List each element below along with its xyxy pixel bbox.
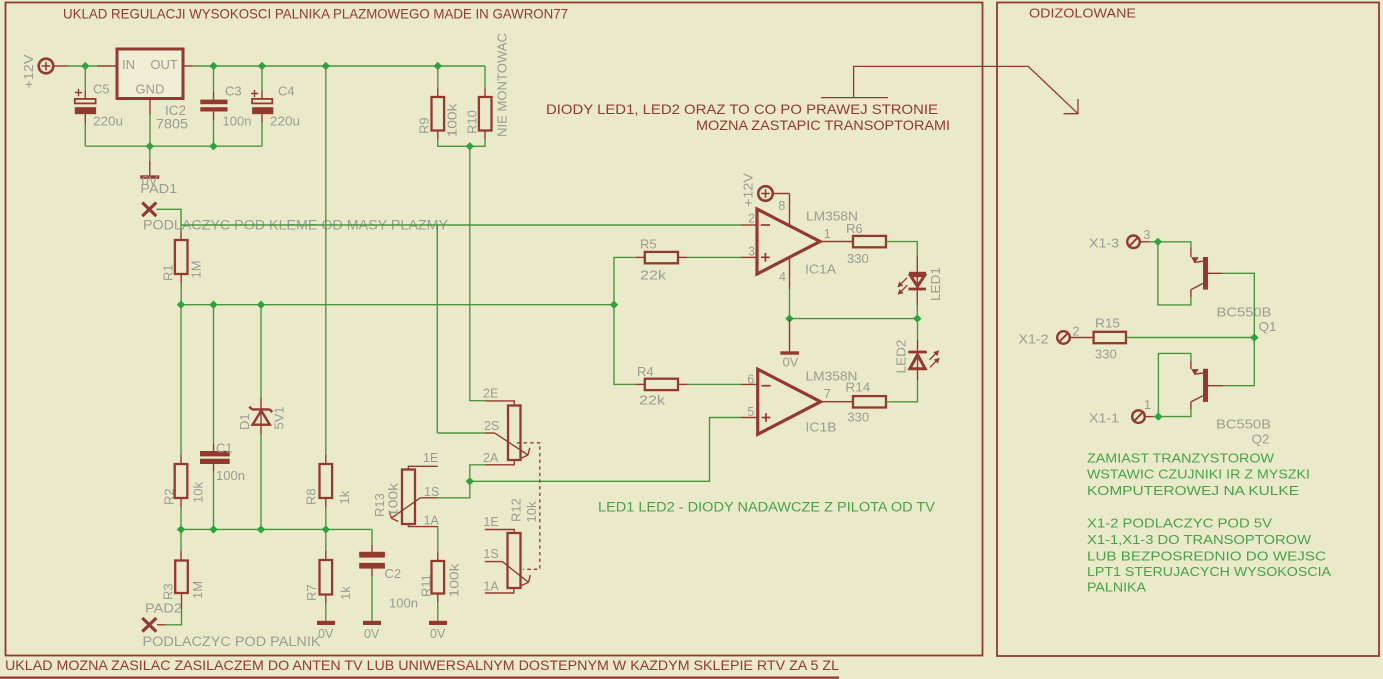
junction C4 top [258, 62, 266, 70]
ground 0V under C2 [363, 621, 381, 625]
junction GND pin [146, 142, 154, 150]
wire C2 top lead [371, 529, 373, 545]
svg-text:3: 3 [1144, 228, 1151, 242]
junction wiper net [466, 477, 474, 485]
wire 2S wiper to pin2 [436, 225, 438, 433]
LED2 emission arrows [930, 354, 937, 368]
svg-text:1: 1 [1144, 398, 1151, 412]
svg-text:330: 330 [1095, 346, 1117, 361]
svg-text:6: 6 [747, 372, 754, 386]
svg-text:22k: 22k [640, 268, 667, 283]
svg-text:1E: 1E [483, 515, 498, 529]
svg-text:Q1: Q1 [1259, 319, 1277, 334]
svg-text:X1-2 PODLACZYC POD 5V: X1-2 PODLACZYC POD 5V [1087, 515, 1272, 530]
pin 1S wiper R13 [420, 497, 438, 499]
svg-text:0V: 0V [430, 627, 446, 641]
pin LED1 bottom [916, 290, 918, 305]
regulator IC2 7805 [117, 49, 183, 99]
pin 5 non-inverting [741, 417, 758, 419]
svg-text:C2: C2 [385, 566, 402, 581]
svg-text:MOZNA ZASTAPIC TRANSOPTORAMI: MOZNA ZASTAPIC TRANSOPTORAMI [696, 117, 950, 133]
svg-text:R7: R7 [304, 584, 319, 601]
pin IN [97, 65, 117, 67]
body R15 [1094, 332, 1126, 343]
svg-text:R6: R6 [846, 221, 863, 236]
wire bus bottom [181, 528, 372, 530]
svg-text:R9: R9 [417, 117, 432, 134]
svg-text:LED2: LED2 [893, 340, 908, 374]
svg-text:1k: 1k [338, 586, 353, 600]
wire R9/R10 bottom join [438, 139, 485, 146]
pin LED2 top [917, 340, 919, 351]
svg-text:PALNIKA: PALNIKA [1087, 579, 1146, 594]
wire Q1 collector loop [1158, 242, 1191, 305]
Q1 emitter [1158, 242, 1191, 248]
svg-text:LED1 LED2 - DIODY NADAWCZE Z P: LED1 LED2 - DIODY NADAWCZE Z PILOTA OD T… [598, 500, 935, 515]
svg-text:1M: 1M [190, 581, 205, 599]
svg-text:PAD1: PAD1 [140, 181, 177, 196]
pin C3 bottom [213, 112, 215, 121]
pin R11 bottom [437, 594, 439, 603]
wire R13-1A to R11 [437, 527, 439, 552]
pad X1-3 [1127, 236, 1140, 249]
body R2 [175, 464, 188, 498]
wire bus to R4 [614, 305, 636, 385]
svg-text:100k: 100k [447, 563, 462, 598]
svg-text:0V: 0V [783, 354, 799, 369]
pin R2 bottom [180, 498, 182, 507]
svg-text:C3: C3 [225, 83, 242, 98]
body R7 [320, 560, 333, 595]
svg-text:1k: 1k [337, 490, 352, 504]
wire R2 top lead [180, 305, 182, 455]
svg-text:100k: 100k [386, 482, 401, 517]
svg-text:2E: 2E [483, 387, 498, 401]
junction R2/R3 [177, 525, 185, 533]
pin C2 bottom [371, 569, 373, 576]
pad PAD1 (0V) [149, 146, 151, 161]
supply +12V input [39, 59, 54, 74]
pin 1A R13 [408, 524, 437, 527]
svg-text:R11: R11 [419, 574, 434, 597]
wire 2S to pin2 riser [437, 432, 485, 434]
junction C1 top [209, 301, 217, 309]
svg-text:D1: D1 [237, 413, 252, 430]
wire ground bus under regulator [85, 145, 262, 147]
svg-text:330: 330 [847, 410, 869, 425]
pin LED1 top [916, 256, 918, 272]
pin R1 top [180, 231, 182, 240]
svg-text:X1-1: X1-1 [1089, 411, 1119, 426]
junction C3 top [209, 62, 217, 70]
svg-text:R15: R15 [1095, 316, 1120, 331]
Q1 base [1208, 272, 1222, 274]
svg-text:IC1A: IC1A [805, 262, 836, 277]
pin R8 bottom [325, 498, 327, 507]
supply +12V op-amp [758, 186, 773, 201]
pin C1 bottom [213, 464, 215, 471]
sheet frame left [6, 3, 983, 656]
wire C1 top lead [213, 305, 215, 444]
pin D1 bottom [260, 427, 262, 434]
cross PAD2 connection [142, 618, 156, 632]
body R3 [175, 561, 188, 594]
op-amp IC1A LM358N [757, 209, 820, 274]
svg-text:5: 5 [747, 405, 754, 419]
wire rail to R8 [325, 66, 327, 455]
body R12 gang1 [508, 533, 521, 588]
Q2 collector [1191, 396, 1203, 402]
pin 6 inverting [741, 383, 758, 385]
Q1 collector [1191, 283, 1203, 289]
pin 2 inverting [741, 224, 757, 226]
LED LED1 [909, 272, 926, 275]
junction C3 bottom [209, 142, 217, 150]
svg-text:1A: 1A [424, 514, 440, 528]
body R14 [853, 396, 886, 407]
svg-text:DIODY LED1, LED2 ORAZ TO CO PO: DIODY LED1, LED2 ORAZ TO CO PO PRAWEJ ST… [546, 101, 938, 117]
body R8 [320, 464, 333, 498]
pin 7 output [821, 401, 853, 403]
pin R3 bottom [181, 593, 183, 609]
junction R9R10 to divider [466, 142, 474, 150]
svg-text:R2: R2 [161, 488, 176, 505]
svg-text:R5: R5 [640, 237, 657, 252]
body R6 [853, 236, 886, 247]
wire D1 top lead [260, 305, 262, 398]
svg-text:PODLACZYC POD PALNIK: PODLACZYC POD PALNIK [143, 634, 321, 649]
wire pin5 net to wipers [470, 418, 741, 482]
junction D1 bottom [257, 525, 265, 533]
sheet frame right [997, 3, 1379, 657]
junction R1/R2 [177, 301, 185, 309]
pin C4 bottom [261, 114, 263, 123]
svg-text:22k: 22k [639, 393, 666, 408]
junction R8 rail tap [322, 62, 330, 70]
junction LED1/LED2 [913, 314, 921, 322]
wire R14 to LED2 [886, 380, 918, 402]
minus sign IC1B [762, 385, 771, 387]
svg-text:2A: 2A [483, 451, 499, 465]
svg-text:1M: 1M [189, 260, 204, 278]
svg-text:7: 7 [824, 387, 831, 401]
pin R1 bottom [180, 274, 182, 283]
pin R9 bottom [437, 131, 439, 140]
junction R5/R4 column [610, 301, 618, 309]
junction X1-1 [1154, 412, 1162, 420]
wire R5 to pin3 [687, 256, 741, 258]
bottom underline [0, 676, 839, 678]
svg-text:R1: R1 [160, 264, 175, 281]
svg-text:7805: 7805 [156, 116, 188, 131]
svg-text:Q2: Q2 [1252, 432, 1270, 447]
ground 0V op-amp [789, 319, 791, 352]
pin 1 output [820, 241, 853, 243]
junction base net [1250, 333, 1258, 341]
cross PAD1 connection [142, 203, 156, 217]
wire R10 top lead [484, 66, 486, 88]
pin X1-2 to R15 [1070, 337, 1094, 339]
svg-text:LUB BEZPOSREDNIO DO WEJSC: LUB BEZPOSREDNIO DO WEJSC [1087, 548, 1326, 563]
svg-text:NIE MONTOWAC: NIE MONTOWAC [495, 33, 510, 137]
svg-text:1E: 1E [423, 451, 438, 465]
Q2 base [1208, 385, 1223, 387]
svg-text:0V: 0V [364, 627, 380, 641]
pin 2E [486, 401, 515, 406]
pin supply [53, 65, 68, 67]
svg-text:GND: GND [136, 82, 165, 97]
svg-text:3: 3 [748, 245, 755, 259]
wire 0V rail between op-amps [790, 318, 918, 320]
wire R9/R10 to 2E of R12 [470, 146, 486, 400]
svg-text:100n: 100n [216, 468, 245, 483]
svg-text:X1-2: X1-2 [1019, 331, 1049, 346]
svg-text:4: 4 [779, 270, 786, 284]
svg-text:220u: 220u [93, 113, 123, 128]
body R13 [402, 470, 415, 525]
svg-text:100n: 100n [223, 113, 252, 128]
svg-text:R12: R12 [509, 498, 524, 522]
wire R3 top lead [180, 529, 182, 551]
ground 0V under R11 [429, 621, 447, 625]
wire +12V to IN [68, 65, 97, 67]
svg-text:WSTAWIC CZUJNIKI IR Z MYSZKI: WSTAWIC CZUJNIKI IR Z MYSZKI [1087, 467, 1310, 482]
pin X1-1 [1145, 416, 1153, 418]
LED1 emission arrows [901, 278, 907, 291]
junction R9 top [434, 62, 442, 70]
capacitor C3 100n [200, 100, 227, 105]
junction R8/R7 [322, 525, 330, 533]
junction X1-3 [1154, 238, 1162, 246]
pin GND of IC2 [149, 99, 151, 115]
svg-text:+12V: +12V [21, 54, 36, 88]
body R11 [432, 561, 445, 594]
wire OUT rail 5V [183, 65, 193, 67]
svg-text:8: 8 [778, 199, 785, 213]
svg-text:R10: R10 [465, 110, 480, 134]
pin R10 bottom [484, 131, 486, 140]
wire inverting input net (pin2) [181, 224, 741, 226]
op-amp IC1B LM358N [758, 369, 821, 434]
pin 8 V+ [772, 193, 789, 195]
junction pin4 0V [785, 314, 793, 322]
wire bus mid (R1-R2-C1-D1 to R5/R4) [181, 304, 614, 306]
capacitor C4 220u [251, 90, 258, 97]
wire R7 top lead [325, 529, 327, 551]
svg-text:ZAMIAST TRANZYSTOROW: ZAMIAST TRANZYSTOROW [1087, 450, 1275, 465]
svg-text:220u: 220u [270, 113, 300, 128]
svg-text:ODIZOLOWANE: ODIZOLOWANE [1029, 5, 1136, 20]
svg-text:C5: C5 [93, 82, 110, 97]
svg-text:+12V: +12V [741, 173, 756, 207]
wire base net Q1/Q2 [1222, 273, 1254, 385]
svg-text:2S: 2S [484, 419, 499, 433]
wire R3 to PAD2 [165, 609, 182, 625]
resistor R1 1M [175, 240, 188, 274]
svg-text:IC1B: IC1B [806, 419, 837, 434]
wire R9 top lead [437, 66, 439, 88]
pin 2A [486, 460, 515, 465]
pad X1-1 [1132, 410, 1145, 423]
ground 0V under R7 [317, 621, 335, 625]
wire PAD1 to R1 [157, 209, 182, 231]
capacitor C5 220u [75, 89, 82, 96]
body R5 [645, 252, 678, 263]
svg-text:330: 330 [847, 251, 869, 266]
svg-text:LED1: LED1 [928, 267, 943, 301]
junction D1 top [257, 301, 265, 309]
svg-text:UKLAD MOZNA ZASILAC ZASILACZEM: UKLAD MOZNA ZASILAC ZASILACZEM DO ANTEN … [5, 658, 839, 673]
wire R4 to pin6 [687, 383, 741, 385]
svg-text:X1-3: X1-3 [1089, 236, 1119, 251]
wire C4 top lead [261, 66, 263, 91]
pin LED2 bottom [917, 369, 919, 380]
svg-text:R3: R3 [161, 583, 176, 600]
wire C5 top lead [84, 66, 86, 91]
pin C5 bottom [84, 114, 86, 123]
pin 1E R13 [408, 466, 437, 469]
svg-text:X1-1,X1-3 DO TRANSOPTOROW: X1-1,X1-3 DO TRANSOPTOROW [1087, 532, 1312, 547]
svg-text:KOMPUTEROWEJ NA KULKE: KOMPUTEROWEJ NA KULKE [1087, 483, 1299, 498]
svg-text:PAD2: PAD2 [145, 601, 182, 616]
pin 4 gnd [789, 258, 791, 289]
pin 1S gang1 [485, 561, 503, 563]
junction C5 top [81, 62, 89, 70]
pad X1-2 [1057, 331, 1070, 344]
junction C1 bottom [209, 525, 217, 533]
wire R15 to bases [1126, 337, 1254, 339]
wire R6 to LED1 [886, 242, 917, 256]
pin X1-3 [1140, 241, 1149, 243]
wire Q2 emitter loop [1158, 353, 1191, 416]
svg-text:OUT: OUT [150, 57, 178, 72]
svg-text:1: 1 [824, 227, 831, 241]
pin R5 right [678, 256, 687, 258]
pin 2S wiper [486, 432, 496, 434]
svg-text:1A: 1A [483, 579, 499, 593]
wire C3 top lead [213, 66, 215, 92]
svg-text:2: 2 [1073, 325, 1080, 339]
svg-text:R4: R4 [637, 364, 654, 379]
svg-text:C1: C1 [216, 441, 233, 456]
wire 2A/1S net [438, 465, 486, 498]
LED LED2 [908, 351, 927, 354]
body R9 100k [432, 97, 445, 131]
svg-text:100n: 100n [389, 596, 418, 611]
svg-text:C4: C4 [278, 83, 295, 98]
svg-text:10k: 10k [524, 501, 539, 522]
transistor Q2 BC550B [1203, 369, 1208, 402]
body R4 [645, 379, 678, 390]
svg-text:IN: IN [122, 57, 135, 72]
svg-text:100k: 100k [445, 103, 460, 138]
pin R7 bottom [325, 595, 327, 604]
minus sign IC1A [761, 224, 770, 226]
svg-text:LPT1 STERUJACYCH WYSOKOSCIA: LPT1 STERUJACYCH WYSOKOSCIA [1087, 564, 1331, 579]
svg-text:1S: 1S [483, 547, 498, 561]
svg-text:0V: 0V [318, 627, 334, 641]
body R10 [479, 97, 492, 131]
arrow to isolated section [821, 66, 1078, 113]
transistor Q1 BC550B [1203, 257, 1208, 290]
dashed gang coupling [517, 443, 540, 570]
svg-text:R8: R8 [303, 488, 318, 505]
svg-text:1S: 1S [424, 485, 439, 499]
pin R4 right [678, 383, 687, 385]
svg-text:5V1: 5V1 [272, 406, 287, 429]
svg-text:10k: 10k [191, 482, 206, 503]
svg-text:2: 2 [748, 212, 755, 226]
body R12 gang2 [508, 406, 521, 461]
pin 3 non-inverting [741, 256, 757, 258]
svg-text:UKLAD REGULACJI WYSOKOSCI PALN: UKLAD REGULACJI WYSOKOSCI PALNIKA PLAZMO… [63, 6, 568, 22]
svg-text:BC550B: BC550B [1216, 417, 1271, 432]
wire bus to R5 [614, 257, 636, 304]
svg-text:BC550B: BC550B [1217, 305, 1272, 320]
svg-text:R14: R14 [845, 380, 870, 395]
